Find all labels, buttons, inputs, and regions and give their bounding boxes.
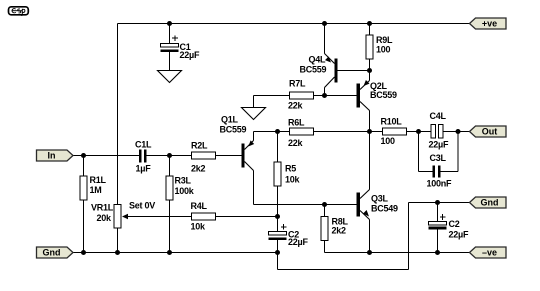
svg-text:22µF: 22µF: [449, 230, 469, 240]
svg-text:22µF: 22µF: [180, 50, 200, 60]
svg-text:R4L: R4L: [191, 201, 208, 211]
svg-text:22µF: 22µF: [288, 237, 308, 247]
svg-text:C2: C2: [449, 219, 460, 229]
svg-text:10k: 10k: [191, 222, 207, 232]
svg-text:BC559: BC559: [220, 125, 247, 135]
svg-text:+ve: +ve: [482, 19, 497, 29]
svg-text:R5: R5: [285, 164, 296, 174]
svg-text:Gnd: Gnd: [43, 248, 61, 258]
svg-text:Q1L: Q1L: [221, 115, 239, 125]
svg-text:1M: 1M: [90, 185, 102, 195]
svg-text:R9L: R9L: [376, 35, 393, 45]
svg-text:Q4L: Q4L: [309, 55, 327, 65]
svg-text:10k: 10k: [285, 175, 301, 185]
svg-text:R1L: R1L: [90, 175, 107, 185]
svg-text:Q3L: Q3L: [371, 194, 389, 204]
svg-text:–ve: –ve: [482, 248, 497, 258]
svg-text:22µF: 22µF: [429, 140, 449, 150]
svg-text:1µF: 1µF: [136, 164, 152, 174]
svg-text:R10L: R10L: [381, 117, 403, 127]
svg-text:R3L: R3L: [175, 176, 192, 186]
svg-text:Out: Out: [482, 127, 498, 137]
svg-text:In: In: [48, 151, 56, 161]
svg-text:100nF: 100nF: [427, 179, 453, 189]
svg-text:VR1L: VR1L: [91, 203, 114, 213]
svg-text:BC559: BC559: [370, 90, 397, 100]
svg-text:100: 100: [376, 45, 391, 55]
svg-text:R2L: R2L: [191, 141, 208, 151]
svg-text:2k2: 2k2: [332, 226, 347, 236]
svg-text:R6L: R6L: [288, 118, 305, 128]
svg-text:2k2: 2k2: [191, 164, 206, 174]
svg-text:BC559: BC559: [300, 65, 327, 75]
svg-text:C1L: C1L: [135, 140, 152, 150]
svg-text:C3L: C3L: [430, 153, 447, 163]
svg-text:100k: 100k: [175, 186, 195, 196]
svg-text:20k: 20k: [97, 213, 113, 223]
svg-text:Set 0V: Set 0V: [129, 201, 155, 211]
svg-text:Gnd: Gnd: [481, 198, 499, 208]
svg-text:C4L: C4L: [430, 111, 447, 121]
svg-text:22k: 22k: [288, 101, 304, 111]
svg-text:R7L: R7L: [289, 79, 306, 89]
svg-text:BC549: BC549: [371, 204, 398, 214]
svg-text:100: 100: [381, 136, 396, 146]
svg-text:22k: 22k: [288, 138, 304, 148]
